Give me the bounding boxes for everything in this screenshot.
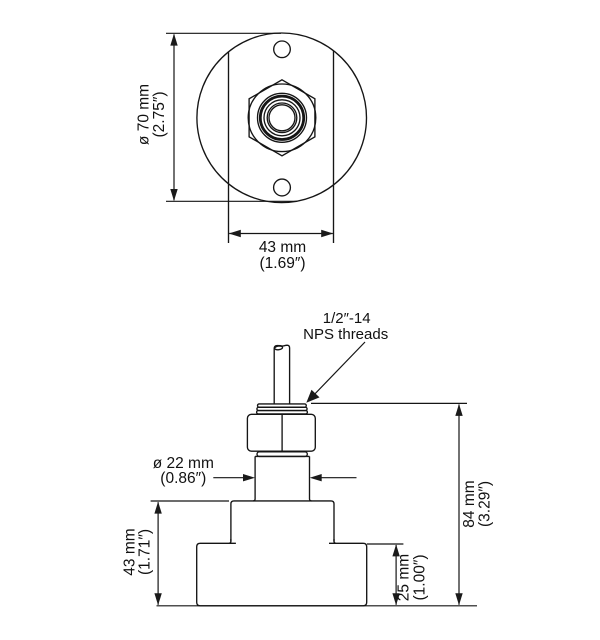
base top edge left segment bbox=[197, 543, 367, 606]
thread bead 2 bbox=[257, 407, 307, 410]
top mounting hole bbox=[274, 41, 291, 58]
thread ring r13 bbox=[269, 105, 295, 131]
common bottom extension baseline bbox=[157, 605, 478, 607]
flange (side view) top edge and sides bbox=[231, 501, 334, 542]
thread bead 1 bbox=[258, 404, 307, 407]
svg-text:(1.71″): (1.71″) bbox=[137, 529, 154, 575]
svg-text:ø 70 mm: ø 70 mm bbox=[136, 84, 153, 145]
thread bead 3 bbox=[257, 411, 308, 414]
dim 43 arrowhead right bbox=[321, 230, 333, 237]
stem bore ellipse bbox=[274, 346, 282, 351]
nut chamfer circle bbox=[248, 84, 316, 152]
dim 25 arrowhead down bbox=[392, 593, 399, 605]
dim 43 arrowhead left bbox=[229, 230, 241, 237]
svg-text:1/2″-14: 1/2″-14 bbox=[323, 310, 371, 327]
dim ø22 left arrowhead bbox=[243, 474, 255, 481]
dim 43 (side) arrowhead up bbox=[154, 502, 161, 514]
cylinder left side bbox=[253, 456, 255, 501]
dim ø70 bottom extension line bbox=[166, 200, 297, 202]
hex nut (side view) bbox=[247, 414, 315, 451]
svg-text:25 mm: 25 mm bbox=[396, 554, 413, 601]
thread ring r21.7 thick bbox=[260, 96, 303, 139]
dim ø22 left leader line bbox=[213, 477, 244, 479]
dim 84 vertical dimension line bbox=[458, 405, 460, 605]
dim 25 arrowhead up bbox=[392, 544, 399, 556]
cylinder top edge bbox=[255, 455, 309, 457]
dim 43 (side) vertical dimension line bbox=[157, 502, 159, 605]
flange left flat edge + extension line bbox=[228, 52, 230, 244]
hex nut outline (top view) bbox=[249, 80, 315, 156]
stem pipe (side view) bbox=[274, 345, 289, 404]
svg-text:84 mm: 84 mm bbox=[461, 480, 478, 527]
washer bead bbox=[257, 452, 307, 457]
dim 84 top extension line bbox=[311, 402, 467, 404]
svg-text:(2.75″): (2.75″) bbox=[151, 92, 168, 138]
dim ø22 right leader line bbox=[321, 477, 357, 479]
bottom mounting hole bbox=[274, 179, 291, 196]
flange foot left bbox=[229, 539, 236, 543]
thread ring r24.5 bbox=[258, 93, 307, 142]
svg-text:(1.69″): (1.69″) bbox=[260, 255, 306, 272]
dim 84 arrowhead down bbox=[455, 593, 462, 605]
dim ø70 arrowhead down bbox=[170, 189, 177, 201]
dim ø70 top extension line bbox=[166, 32, 281, 34]
thread ring r14.8 bbox=[267, 103, 297, 133]
svg-text:(3.29″): (3.29″) bbox=[477, 481, 494, 527]
dim 43 (side) top extension line bbox=[151, 500, 229, 502]
thread ring r18 bbox=[264, 100, 300, 136]
dim 84 arrowhead up bbox=[455, 404, 462, 416]
dim 25 top extension line bbox=[367, 543, 403, 545]
NPS threads leader line bbox=[310, 342, 366, 400]
dim ø22 right arrowhead bbox=[310, 474, 322, 481]
NPS threads leader arrowhead bbox=[306, 390, 319, 403]
dim 43 (side) arrowhead down bbox=[154, 593, 161, 605]
svg-text:NPS threads: NPS threads bbox=[303, 326, 388, 343]
svg-text:(0.86″): (0.86″) bbox=[160, 470, 206, 487]
dim ø70 arrowhead up bbox=[170, 34, 177, 46]
flange foot right bbox=[329, 539, 336, 543]
svg-text:43 mm: 43 mm bbox=[259, 239, 306, 256]
flange outer circle (top view) bbox=[197, 33, 367, 203]
cylinder right side bbox=[310, 456, 312, 501]
dim 25 vertical dimension line bbox=[395, 545, 397, 605]
dim 43 horizontal dimension line (top view) bbox=[229, 233, 333, 235]
dim ø70 vertical dimension line bbox=[173, 35, 175, 201]
hex nut front edge line bbox=[281, 415, 283, 452]
flange right flat edge + extension line bbox=[333, 51, 335, 244]
svg-text:(1.00″): (1.00″) bbox=[412, 555, 429, 601]
